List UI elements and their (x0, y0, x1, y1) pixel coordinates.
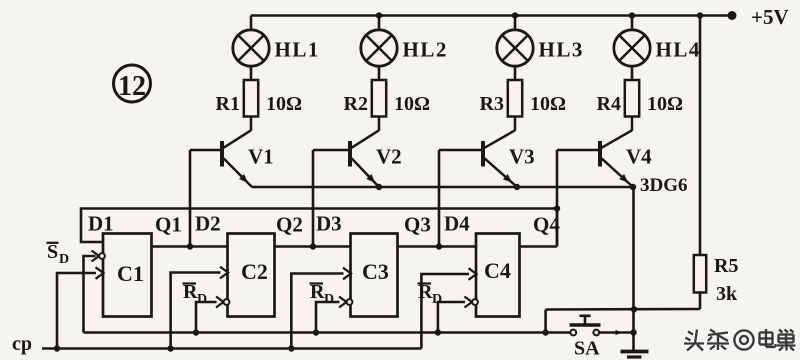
resistor R4 (625, 80, 639, 117)
wire: down to reset rail (544, 310, 547, 333)
wire: +5V rail to lamp HL4 (631, 16, 634, 31)
flip-flop FF3 (C3) box (351, 234, 398, 317)
junction on +5V rail x=515 (512, 12, 518, 18)
label S̄D (47, 241, 70, 267)
wire: resistor R2 to collector of V2 (378, 117, 381, 131)
junction on +5V rail x=379 (376, 12, 382, 18)
transistor V2 (350, 130, 379, 187)
svg-text:3k: 3k (716, 283, 738, 305)
svg-text:D: D (197, 292, 207, 307)
wire: cp to clock of FF4 (421, 274, 469, 349)
svg-text:10Ω: 10Ω (266, 93, 302, 115)
wire: reset rail (S̄D/R̄D net) (84, 331, 546, 334)
wire: R5 bottom down (699, 293, 702, 310)
pin: clock C2 input caret (220, 267, 228, 279)
node: +5V terminal dot (728, 11, 737, 20)
wire: resistor R4 to collector of V4 (631, 117, 634, 131)
wire: feedback bus Q4 to D1 (81, 209, 557, 247)
label R̄D of FF4 (418, 281, 443, 307)
resistor R3 (508, 80, 522, 117)
wire: resistor R3 to collector of V3 (514, 117, 517, 131)
wire: +5V rail to lamp HL3 (514, 16, 517, 31)
svg-text:D: D (59, 252, 69, 267)
junction: Q3 to base wire of V3 (436, 243, 442, 249)
wire: lamp HL1 to resistor R1 (250, 66, 253, 80)
junction: reset rail to FF3 R̄D (313, 329, 319, 335)
svg-text:HL4: HL4 (656, 38, 701, 62)
resistor R1 (244, 80, 258, 117)
svg-text:Q2: Q2 (276, 213, 303, 237)
wire: Q3 up to V3 base (438, 150, 441, 247)
svg-text:R5: R5 (714, 255, 738, 277)
wire: Q4 up to V4 base (556, 150, 559, 247)
tick mark on SA output wire (616, 330, 622, 336)
svg-text:V3: V3 (509, 145, 535, 169)
junction: Q1 to base wire of V1 (187, 243, 193, 249)
wire: resistor R1 to collector of V1 (250, 117, 253, 131)
junction: cp rail to FF2 clock (167, 345, 173, 351)
junction: reset rail to FF2 R̄D (193, 329, 199, 335)
svg-text:R1: R1 (216, 93, 240, 115)
junction: reset rail to R5 pullup (542, 329, 548, 335)
svg-text:D1: D1 (88, 212, 114, 236)
wire: Q4 output (520, 245, 558, 248)
svg-text:C2: C2 (241, 259, 268, 284)
pin: clock C1 input caret (96, 267, 104, 279)
svg-text:HL3: HL3 (539, 38, 584, 62)
svg-text:S: S (47, 241, 58, 263)
svg-text:C4: C4 (484, 258, 511, 283)
svg-text:3DG6: 3DG6 (640, 175, 688, 196)
wire: S̄D input of FF1 to reset rail (84, 256, 96, 333)
wire: cp clock rail (42, 347, 421, 350)
svg-text:R3: R3 (480, 93, 504, 115)
flip-flop FF2 (C2) box (228, 234, 275, 317)
svg-text:R4: R4 (597, 93, 621, 115)
flip-flop FF1 (C1) box (103, 234, 152, 317)
wire: cp to clock of FF3 (291, 274, 343, 349)
wire: Q3 output to D4 input (398, 245, 477, 248)
svg-text:D: D (324, 292, 334, 307)
wire: base of V4 (557, 149, 600, 152)
svg-text:cp: cp (12, 333, 32, 355)
junction: V2 emitter (376, 184, 382, 190)
svg-text:HL1: HL1 (275, 38, 320, 62)
label R̄D of FF2 (183, 281, 208, 307)
wire: Q1 output to D2 input (152, 245, 228, 248)
wire: cp to clock of FF1 (57, 273, 96, 349)
lamp HL2 (361, 30, 397, 66)
wire: Q2 output to D3 input (275, 245, 351, 248)
transistor V4 (600, 130, 633, 187)
junction: cp rail to FF1 clock (54, 345, 60, 351)
wire: SA right contact to ground line (599, 331, 633, 334)
svg-text:10Ω: 10Ω (530, 93, 566, 115)
wire: lamp HL4 to resistor R4 (631, 66, 634, 80)
svg-text:R2: R2 (344, 93, 368, 115)
svg-text:SA: SA (574, 338, 600, 360)
svg-text:V2: V2 (376, 145, 402, 169)
svg-text:V4: V4 (626, 145, 652, 169)
svg-text:V1: V1 (248, 145, 274, 169)
wire: R̄D input of FF4 to reset rail (438, 302, 465, 333)
junction: ground line crosses R5 rail (631, 306, 637, 312)
svg-text:D: D (432, 292, 442, 307)
watermark text 头条@电巢 (drawn strokes) (684, 329, 797, 352)
svg-text:Q1: Q1 (155, 213, 182, 237)
wire: lamp HL3 to resistor R3 (514, 66, 517, 80)
ground (621, 352, 649, 358)
junction: V4 emitter to ground line (630, 184, 636, 190)
lamp HL3 (497, 30, 533, 66)
figure number 12 circled (114, 65, 151, 102)
svg-text:C1: C1 (117, 261, 144, 286)
pin: R̄D reset input of FF2 (bubble) (216, 297, 229, 308)
pin: clock C4 input caret (469, 268, 477, 280)
resistor R5 (694, 255, 706, 293)
resistor R2 (372, 80, 386, 117)
svg-text:D3: D3 (316, 212, 342, 236)
wire: emitter rail down to ground (632, 187, 635, 352)
wire: R̄D input of FF3 to reset rail (316, 302, 340, 333)
transistor V1 (222, 130, 252, 187)
wire: base of V2 (313, 149, 350, 152)
wire: Q2 up to V2 base (312, 150, 315, 247)
wire: cp to clock of FF2 (171, 273, 221, 349)
flip-flop FF4 (C4) box (476, 234, 520, 317)
junction: cp rail to FF3 clock (288, 345, 294, 351)
junction on +5V rail x=700 (697, 12, 703, 18)
lamp HL4 (614, 30, 650, 66)
wire: +5V rail down to R5 (699, 16, 702, 256)
junction: V3 emitter (514, 184, 520, 190)
svg-text:Q3: Q3 (404, 213, 431, 237)
pin: S̄D set input of FF1 (bubble) (92, 251, 105, 262)
junction: reset rail to FF4 R̄D (435, 329, 441, 335)
wire: base of V1 (190, 149, 222, 152)
transistor V3 (483, 130, 517, 187)
wire: R5 bottom rail to reset net (546, 308, 700, 311)
junction: Q4 line joins feedback bus (554, 205, 560, 211)
wire: base of V3 (439, 149, 483, 152)
pin: R̄D reset input of FF4 (bubble) (465, 297, 478, 308)
switch SA pushbutton (570, 316, 601, 336)
svg-text:10Ω: 10Ω (647, 93, 683, 115)
svg-text:10Ω: 10Ω (394, 93, 430, 115)
junction: SA to ground line (630, 329, 636, 335)
wire: Q1 up to V1 base (189, 150, 192, 247)
label R̄D of FF3 (310, 281, 335, 307)
pin: R̄D reset input of FF3 (bubble) (339, 297, 352, 308)
wire: lamp HL2 to resistor R2 (378, 66, 381, 80)
wire: reset rail to SA left contact (546, 331, 571, 334)
wire: +5V rail to lamp HL1 (250, 16, 253, 31)
svg-text:+5V: +5V (751, 5, 789, 29)
junction on +5V rail x=632 (629, 12, 635, 18)
wire: common emitter rail (252, 186, 633, 189)
wire: R̄D input of FF2 to reset rail (196, 302, 217, 333)
svg-text:Q4: Q4 (533, 213, 560, 237)
junction: Q2 to base wire of V2 (310, 243, 316, 249)
svg-text:HL2: HL2 (403, 38, 448, 62)
lamp HL1 (233, 30, 269, 66)
pin: clock C3 input caret (343, 268, 351, 280)
wire: +5V supply top rail (251, 14, 732, 17)
svg-text:12: 12 (118, 71, 146, 102)
svg-text:D2: D2 (195, 212, 221, 236)
wire: +5V rail to lamp HL2 (378, 16, 381, 31)
svg-text:D4: D4 (444, 212, 470, 236)
svg-text:C3: C3 (362, 259, 389, 284)
